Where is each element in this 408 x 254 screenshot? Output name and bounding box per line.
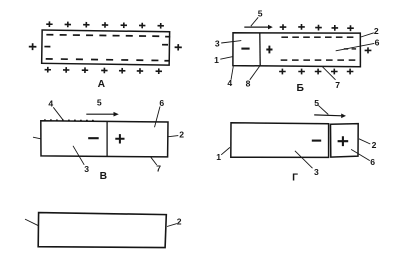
minus charge left inside plate A [44,46,50,48]
svg-text:6: 6 [370,157,375,167]
plus charge right of bar B [365,47,372,53]
conductor bar B [233,33,361,67]
svg-text:2: 2 [374,26,379,36]
svg-text:3: 3 [84,164,89,174]
plus charges below bar B [279,69,353,75]
svg-text:Б: Б [296,83,304,94]
svg-text:4: 4 [227,78,232,88]
induced plus region in bar V [115,134,124,143]
minus charges bottom row inside plate A [46,59,169,61]
minus charges top row inside plate A [46,35,170,37]
svg-text:2: 2 [179,130,184,140]
svg-text:7: 7 [156,164,161,174]
svg-text:2: 2 [372,140,377,150]
velocity arrow of bar B [244,26,269,28]
svg-text:1: 1 [216,152,221,162]
plus charges below plate A [45,67,162,74]
velocity arrow of bar G [314,114,342,117]
plus charge in small block G [338,136,349,146]
svg-text:1: 1 [214,55,219,65]
divider line in bar V [106,121,108,156]
conductor bar G [231,123,329,158]
conductor plate A [42,30,170,65]
svg-text:А: А [98,79,106,90]
induced plus region in bar B [266,46,272,54]
svg-text:5: 5 [97,97,102,107]
plus charge left of plate A [29,43,37,50]
svg-text:6: 6 [159,98,164,108]
conductor bar V [41,121,168,157]
minus charges right inside bar B [344,48,348,50]
leader tick left of bottom rectangle [25,219,38,226]
empty conductor rectangle bottom [38,213,166,248]
induced minus region in bar G [312,140,321,142]
plus charge right of plate A [175,44,182,50]
svg-text:3: 3 [215,38,220,48]
svg-text:5: 5 [258,8,263,18]
svg-text:6: 6 [375,38,380,48]
svg-text:В: В [100,171,107,182]
minus charges bottom row inside bar B [281,59,356,61]
small charged block of G [331,124,359,158]
svg-text:5: 5 [314,98,319,108]
minus charge right inside plate A [162,44,168,46]
minus charges top row inside bar B [281,36,353,38]
velocity arrow of bar V [86,113,114,115]
leader tick left of bar V [33,137,41,139]
plus charges above bar B [280,24,354,31]
svg-text:7: 7 [335,80,340,90]
induced minus region in bar B [241,48,249,50]
induced minus region in bar V [88,137,99,139]
plus charges above plate A [46,21,164,28]
charge dots on top-left edge of bar V [44,119,96,122]
svg-text:4: 4 [48,99,53,109]
svg-text:3: 3 [314,167,319,177]
svg-text:Г: Г [292,173,298,184]
svg-text:2: 2 [177,217,182,227]
divider line in bar B [259,33,261,66]
